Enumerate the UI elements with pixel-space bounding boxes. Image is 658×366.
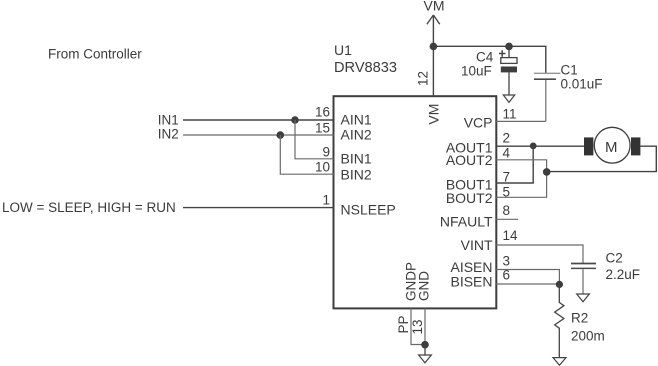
svg-text:LOW = SLEEP, HIGH = RUN: LOW = SLEEP, HIGH = RUN [2, 200, 176, 215]
pin number 10 [315, 160, 330, 175]
svg-text:PP: PP [396, 315, 411, 333]
pin number 16 [315, 104, 330, 119]
svg-text:VCP: VCP [464, 114, 493, 130]
pin name VINT [461, 237, 493, 253]
pin number 2 [503, 131, 511, 146]
svg-text:9: 9 [322, 145, 330, 160]
IC reference designator U1 [334, 42, 352, 58]
svg-text:VM: VM [424, 0, 445, 14]
pin name VM inside box [426, 104, 442, 125]
wire VM top horizontal to C1 [433, 46, 545, 73]
wire VINT pin 14 to C2 [496, 245, 583, 263]
svg-text:14: 14 [503, 228, 519, 243]
svg-text:7: 7 [503, 169, 511, 184]
wire IN1 branch to BIN1 pin 9 [295, 120, 334, 159]
wire IN2 branch to BIN2 pin 10 [280, 135, 334, 174]
pin number 15 [315, 120, 330, 135]
pin number 3 [503, 253, 511, 268]
pin number 1 [322, 193, 330, 208]
svg-text:BISEN: BISEN [450, 274, 492, 290]
wire motor return loop [547, 146, 657, 171]
wire VCP pin 11 [496, 120, 546, 122]
pin number 12 [416, 71, 431, 86]
svg-text:2.2uF: 2.2uF [606, 267, 641, 282]
pin name BIN2 [341, 167, 372, 183]
pin name VCP [464, 114, 493, 130]
svg-text:13: 13 [410, 319, 425, 334]
pin name BISEN [450, 274, 492, 290]
svg-text:R2: R2 [571, 310, 588, 325]
svg-text:BIN1: BIN1 [341, 151, 372, 167]
svg-text:NSLEEP: NSLEEP [341, 202, 396, 218]
svg-text:8: 8 [503, 203, 511, 218]
pin number 9 [322, 145, 330, 160]
junction GND node [421, 341, 429, 349]
pin name AOUT1 [446, 140, 493, 156]
ground under C2 [577, 294, 590, 302]
pin name BIN1 [341, 151, 372, 167]
net label IN1 [158, 112, 179, 127]
value 10uF [461, 63, 492, 78]
value 200m [571, 329, 605, 344]
ground under R2 [553, 358, 566, 366]
svg-text:16: 16 [315, 104, 330, 119]
svg-text:C4: C4 [476, 49, 494, 64]
resistor R2 [555, 284, 564, 357]
svg-text:15: 15 [315, 120, 330, 135]
IC value DRV8833 [334, 60, 397, 76]
svg-text:AOUT2: AOUT2 [446, 152, 493, 168]
wire GNDP pad pin PP [411, 309, 425, 345]
svg-text:10uF: 10uF [461, 63, 492, 78]
svg-text:5: 5 [503, 184, 511, 199]
svg-text:C2: C2 [606, 250, 623, 265]
pin name BOUT2 [446, 190, 493, 206]
label R2 [571, 310, 588, 325]
svg-text:BOUT2: BOUT2 [446, 190, 493, 206]
pin number PP [396, 315, 411, 333]
junction IN1 [291, 116, 299, 124]
junction IN2 [277, 131, 285, 139]
pin name BOUT1 [446, 176, 493, 192]
wire AOUT1 to BOUT1 [496, 146, 533, 183]
label C2 [606, 250, 623, 265]
svg-text:VINT: VINT [461, 237, 493, 253]
pin number 13 [410, 319, 425, 334]
value 2.2uF [606, 267, 641, 282]
junction motor return [543, 168, 551, 176]
wire AOUT2 pin 4 [496, 160, 547, 198]
pin number 7 [503, 169, 511, 184]
svg-text:NFAULT: NFAULT [440, 213, 493, 229]
pin name AOUT2 [446, 152, 493, 168]
power flag VM [424, 0, 445, 24]
net label From Controller [48, 47, 142, 62]
pin name NSLEEP [341, 202, 396, 218]
svg-text:10: 10 [315, 160, 330, 175]
pin number 6 [503, 268, 511, 283]
wire NFAULT stub pin 8 [496, 218, 518, 220]
junction C4 tap [505, 43, 513, 51]
pin number 5 [503, 184, 511, 199]
junction BISEN / R2 [556, 281, 563, 288]
svg-text:1: 1 [322, 193, 330, 208]
pin name NFAULT [440, 213, 493, 229]
pin name GNDP inside box [404, 262, 419, 301]
wire BISEN pin 6 [496, 283, 559, 285]
ground under C4 [503, 95, 514, 102]
svg-text:200m: 200m [571, 329, 605, 344]
pin number 14 [503, 228, 519, 243]
capacitor C4 [499, 46, 517, 95]
svg-text:From Controller: From Controller [48, 47, 142, 62]
capacitor C1 [534, 73, 561, 121]
svg-text:4: 4 [503, 145, 511, 160]
svg-text:BIN2: BIN2 [341, 167, 372, 183]
wire NSLEEP pin 1 [183, 207, 334, 209]
svg-text:12: 12 [416, 71, 431, 86]
value 0.01uF [561, 76, 603, 91]
junction AOUT1 [530, 143, 537, 150]
wire AOUT1 pin 2 to motor [496, 145, 584, 147]
svg-text:AISEN: AISEN [450, 259, 492, 275]
svg-text:GND: GND [416, 271, 431, 301]
svg-text:M: M [605, 139, 618, 156]
wire VM vertical into pin 12 [432, 15, 434, 96]
motor M [584, 127, 640, 163]
svg-text:IN2: IN2 [158, 126, 179, 141]
wire GND pin 13 [424, 309, 426, 345]
svg-text:DRV8833: DRV8833 [334, 60, 397, 76]
svg-text:11: 11 [503, 106, 517, 121]
pin number 4 [503, 145, 511, 160]
label C1 [561, 62, 578, 77]
svg-text:6: 6 [503, 268, 511, 283]
pin name AISEN [450, 259, 492, 275]
junction VM node [430, 43, 438, 51]
svg-text:AIN1: AIN1 [341, 111, 372, 127]
ground under pin 13 [419, 355, 432, 363]
capacitor C2 [571, 264, 596, 295]
svg-text:0.01uF: 0.01uF [561, 76, 603, 91]
svg-text:U1: U1 [334, 42, 352, 58]
net label LOW = SLEEP, HIGH = RUN [2, 200, 176, 215]
pin name GND inside box [416, 271, 431, 301]
wire AISEN pin 3 [496, 270, 559, 285]
svg-text:2: 2 [503, 131, 511, 146]
pin number 8 [503, 203, 511, 218]
label C4 [476, 49, 494, 64]
svg-text:C1: C1 [561, 62, 578, 77]
svg-text:AIN2: AIN2 [341, 127, 372, 143]
svg-text:IN1: IN1 [158, 112, 179, 127]
pin name AIN2 [341, 127, 372, 143]
pin number 11 [503, 106, 517, 121]
wire GND to ground [424, 345, 426, 355]
net label IN2 [158, 126, 179, 141]
pin name AIN1 [341, 111, 372, 127]
wire IN1 to AIN1 pin 16 [183, 119, 334, 121]
svg-text:VM: VM [426, 104, 442, 125]
IC U1 DRV8833 body [334, 96, 497, 308]
svg-text:3: 3 [503, 253, 511, 268]
wire IN2 to AIN2 pin 15 [183, 134, 334, 136]
